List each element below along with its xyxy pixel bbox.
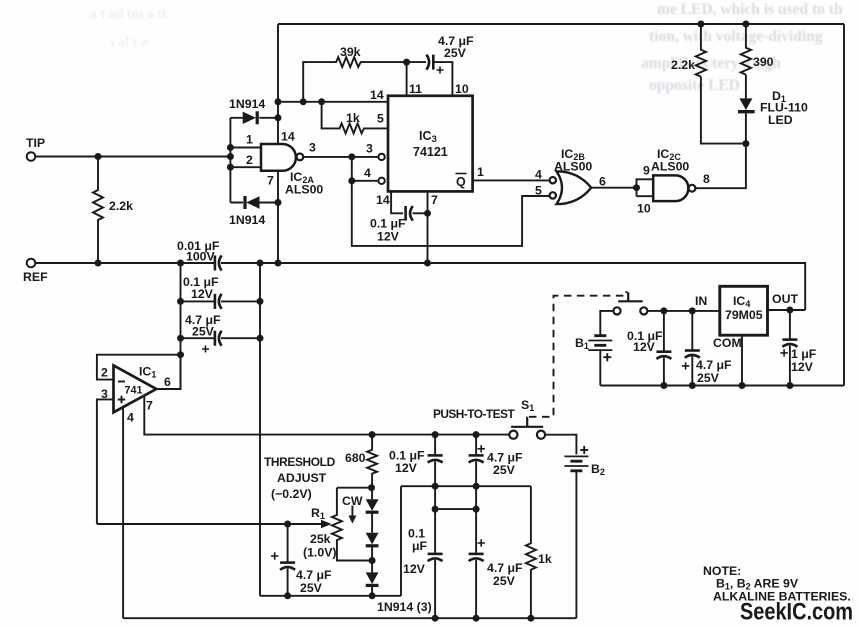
IC3 74121 box xyxy=(388,96,473,192)
junction: pin4 tie xyxy=(348,177,355,184)
svg-text:me LED, which is used to th: me LED, which is used to th xyxy=(657,1,843,18)
label OUT xyxy=(772,292,798,306)
svg-text:0.1 μF: 0.1 μF xyxy=(370,217,406,231)
svg-text:3: 3 xyxy=(366,142,373,156)
resistor 680 xyxy=(367,435,377,488)
wire: IC2A pin2 stub xyxy=(230,166,261,168)
wire: IC2C output 8 to LED node xyxy=(696,144,746,189)
resistor 1k (discharge) xyxy=(526,486,536,618)
terminal REF xyxy=(27,259,36,268)
wire: 2.2k leg to LED node xyxy=(701,77,746,144)
label 14 (IC3 left) xyxy=(370,88,384,102)
label 0.1 (lower mid) xyxy=(408,527,425,541)
label 5 xyxy=(377,112,384,126)
watermark SeekIC.com xyxy=(740,599,853,626)
label pin 2 xyxy=(246,153,253,167)
label 9 xyxy=(643,164,650,178)
label 3 xyxy=(101,387,108,401)
svg-text:1: 1 xyxy=(477,165,484,179)
capacitor 4.7uF 25V (upper mid) xyxy=(469,435,485,487)
junction: 0.1uF left xyxy=(177,298,184,305)
label 4.7 uF (timing) xyxy=(438,34,474,48)
wire: OUT to REF corner xyxy=(768,309,806,311)
capacitor 4.7uF 25V (timing) xyxy=(407,55,453,96)
svg-text:25V: 25V xyxy=(493,463,516,477)
svg-text:LED: LED xyxy=(768,113,793,127)
wire: S1 to B2 xyxy=(545,435,576,455)
wire: IC2B output 6 xyxy=(591,187,636,189)
svg-text:TIP: TIP xyxy=(26,136,45,150)
label ADJUST xyxy=(277,471,327,485)
svg-text:5: 5 xyxy=(535,184,542,198)
svg-text:74121: 74121 xyxy=(413,145,448,159)
capacitor 4.7uF 25V (reg) xyxy=(682,311,700,386)
label 25V (lower mid) xyxy=(493,574,516,588)
junction: 4.7uF upper top xyxy=(473,431,480,438)
svg-text:7: 7 xyxy=(146,399,153,413)
resistor 1k (pin5) xyxy=(322,102,388,134)
diode string 1N914 (3) xyxy=(366,488,379,596)
svg-text:7: 7 xyxy=(267,174,274,188)
svg-text:6: 6 xyxy=(599,175,606,189)
diode 1N914 (top clamp) xyxy=(230,111,278,124)
label IC1 xyxy=(139,365,156,380)
label IN xyxy=(695,294,707,308)
junction: REF/right cap vertical xyxy=(257,260,264,267)
wire: ground rail bottom xyxy=(123,617,576,619)
svg-text:4: 4 xyxy=(364,166,371,180)
junction: pin7 vertical on REF rail xyxy=(424,260,431,267)
svg-text:4.7 μF: 4.7 μF xyxy=(487,561,523,575)
svg-text:9: 9 xyxy=(643,164,650,178)
label B2 xyxy=(591,462,605,477)
wire: pin3-pin4 jumper down to IC2B pin5 xyxy=(352,157,550,246)
label 25V (timing) xyxy=(444,46,467,60)
svg-text:7: 7 xyxy=(431,193,438,207)
nand gate IC2A xyxy=(261,144,303,171)
svg-text:25V: 25V xyxy=(300,581,323,595)
svg-text:ALS00: ALS00 xyxy=(554,160,592,174)
wire: COM pin xyxy=(741,335,743,385)
junction: pin3/pin4 tie xyxy=(348,153,355,160)
label 0.1 uF (reg) xyxy=(627,329,663,343)
svg-text:ALS00: ALS00 xyxy=(651,160,689,174)
label IC2A xyxy=(290,170,314,185)
capacitor 4.7uF 25V (input bank) xyxy=(181,331,261,353)
label 25V (input bank) xyxy=(192,325,215,339)
junction: input node pin2 xyxy=(227,164,234,171)
label 4 (IC2B) xyxy=(535,168,542,182)
capacitor 0.1uF 12V (reg) xyxy=(656,311,671,386)
label 10 xyxy=(455,82,469,96)
svg-text:25V: 25V xyxy=(493,574,516,588)
label 12V (lower mid) xyxy=(403,562,426,576)
label 7 (IC1) xyxy=(146,399,153,413)
label 4 (IC1) xyxy=(127,411,134,425)
wire: REF rail xyxy=(35,263,805,310)
label PUSH-TO-TEST xyxy=(433,407,515,421)
svg-text:1N914 (3): 1N914 (3) xyxy=(377,600,432,614)
svg-text:25V: 25V xyxy=(697,371,720,385)
label 25V (threshold) xyxy=(300,581,323,595)
switch S1 push-to-test xyxy=(509,417,545,439)
label 79M05 xyxy=(725,308,763,322)
svg-text:S1: S1 xyxy=(521,398,534,413)
svg-text:14: 14 xyxy=(370,88,384,102)
wire: feedback to pin2 xyxy=(97,355,181,380)
junction: diode string on node line xyxy=(369,592,376,599)
nand gate IC2C xyxy=(653,175,695,201)
junction: 0.1uF at node line B xyxy=(432,483,439,490)
label 0.1 uF (upper mid) xyxy=(389,449,425,463)
label IC3 xyxy=(419,129,437,145)
junction: 39k / cap / pin11 xyxy=(403,59,410,66)
wire: node line B xyxy=(337,486,531,596)
label 680 xyxy=(345,451,366,465)
label 0.01 uF xyxy=(177,239,220,253)
svg-text:25k: 25k xyxy=(310,532,331,546)
junction: 1k branch xyxy=(318,98,325,105)
label 100V xyxy=(186,250,216,264)
svg-text:741: 741 xyxy=(125,385,143,397)
svg-text:(−0.2V): (−0.2V) xyxy=(271,487,312,501)
svg-text:2: 2 xyxy=(246,153,253,167)
op-amp IC1 741 xyxy=(114,365,157,412)
battery B2 xyxy=(564,446,588,618)
wire: tie bar between cap legs xyxy=(435,486,476,553)
svg-text:1k: 1k xyxy=(346,111,360,125)
label 1 uF xyxy=(791,347,817,361)
label 4.7 uF (reg) xyxy=(696,358,732,372)
switch S1 (battery pole) xyxy=(613,292,647,314)
label 1 (Q-bar out) xyxy=(477,165,484,179)
label 741 xyxy=(125,385,143,397)
label 12V (reg) xyxy=(633,340,656,354)
wire: IC1 pin4 down to ground rail xyxy=(122,407,124,618)
wire: IC3 pin 11 xyxy=(406,62,408,96)
svg-text:R1: R1 xyxy=(311,506,325,521)
wire: IC2A pin1 stub xyxy=(230,147,261,149)
label 39k xyxy=(340,45,361,59)
svg-text:a t ad tm a tt: a t ad tm a tt xyxy=(90,7,167,22)
svg-text:39k: 39k xyxy=(340,45,361,59)
svg-text:1N914: 1N914 xyxy=(229,213,265,227)
potentiometer R1 25k xyxy=(332,488,372,561)
label 4.7 uF (threshold) xyxy=(296,568,332,582)
capacitor 1uF 12V (reg out) xyxy=(780,310,797,386)
wire: regulator ground rail xyxy=(600,385,844,387)
junction: 4.7uF at IN xyxy=(689,307,696,314)
led D1 FLU-110 xyxy=(738,75,755,144)
note text xyxy=(703,564,851,604)
junction: 0.1uF right xyxy=(257,298,264,305)
capacitor 0.1uF 12V (IC3 bypass) xyxy=(406,206,428,221)
label IC2B xyxy=(561,147,585,162)
wire: IC1 pin3 down to wiper line xyxy=(97,399,114,524)
resistor 390 xyxy=(741,24,751,75)
junction: TIP/2.2k xyxy=(95,153,102,160)
label pin 1 xyxy=(246,133,253,147)
svg-text:12V: 12V xyxy=(395,461,418,475)
pin socket 4 (IC3) xyxy=(378,178,384,184)
label 8 xyxy=(703,172,710,186)
wire: top rail xyxy=(278,23,844,25)
wire: to pin socket 4 xyxy=(352,180,379,182)
label 1N914 (top) xyxy=(229,97,265,111)
wire: IC2C input stubs xyxy=(637,179,654,196)
label ALS00 (IC2B) xyxy=(554,160,592,174)
label 25k xyxy=(310,532,331,546)
capacitor 0.01uF 100V (on REF line) xyxy=(215,256,222,271)
label 390 xyxy=(753,55,774,69)
wire: pin14 line to IC3 xyxy=(278,101,388,103)
junction: 4.7uF right xyxy=(257,335,264,342)
svg-text:PUSH-TO-TEST: PUSH-TO-TEST xyxy=(433,407,515,421)
svg-text:1k: 1k xyxy=(538,552,552,566)
junction: REF/2.2k xyxy=(95,260,102,267)
junction: 0.1uF lower at rail xyxy=(432,615,439,622)
label 12V (input bank) xyxy=(191,287,214,301)
wire: switch to IN xyxy=(647,310,719,312)
label 4 (IC3) xyxy=(364,166,371,180)
junction: 0.1uF at reg rail xyxy=(660,382,667,389)
label pin 7 (IC2A) xyxy=(267,174,274,188)
junction: main vertical / REF rail xyxy=(275,260,282,267)
junction: 390 top rail xyxy=(742,21,749,28)
junction: 680/diode-string node xyxy=(368,484,375,491)
label (1.0V) xyxy=(303,546,337,560)
junction: COM at reg rail xyxy=(739,382,746,389)
wire: pin6 output loop xyxy=(156,355,180,389)
label 4.7 uF (upper mid) xyxy=(487,451,523,465)
label 12V (IC3 bypass) xyxy=(377,230,400,244)
label 2 xyxy=(101,366,108,380)
svg-text:79M05: 79M05 xyxy=(725,308,763,322)
svg-text:6: 6 xyxy=(164,375,171,389)
junction: LED node xyxy=(742,140,749,147)
wire: TIP to gate input node xyxy=(35,156,230,158)
label 1N914 (3) xyxy=(377,600,432,614)
svg-text:B2: B2 xyxy=(591,462,605,477)
junction: top diode to main vertical xyxy=(275,114,282,121)
svg-text:100V: 100V xyxy=(186,250,216,264)
junction: cap on node line xyxy=(284,592,291,599)
capacitor 0.1uF 12V (input bank) xyxy=(181,294,261,309)
junction: tie bar right xyxy=(473,506,480,513)
svg-text:2.2k: 2.2k xyxy=(109,199,133,213)
junction: REF/cap-bank vertical xyxy=(177,260,184,267)
junction: input node TIP xyxy=(227,153,234,160)
label 74121 xyxy=(413,145,448,159)
IC4 79M05 box xyxy=(720,286,768,335)
label R1 xyxy=(311,506,325,521)
terminal TIP xyxy=(27,152,36,161)
label 2.2k xyxy=(109,199,133,213)
svg-text:12V: 12V xyxy=(633,340,656,354)
wire: B1 to switch xyxy=(600,311,613,335)
label ALS00 (IC2C) xyxy=(651,160,689,174)
svg-text:12V: 12V xyxy=(791,360,814,374)
svg-text:8: 8 xyxy=(703,172,710,186)
label 1k (discharge) xyxy=(538,552,552,566)
wire: gate input vertical xyxy=(229,118,231,203)
label IC2C xyxy=(657,147,681,162)
label 12V (upper mid) xyxy=(395,461,418,475)
svg-text:1N914: 1N914 xyxy=(229,97,265,111)
junction: bottom diode to main vertical xyxy=(275,199,282,206)
wire: IC3 pin 7 to REF rail xyxy=(427,191,429,263)
svg-text:4: 4 xyxy=(535,168,542,182)
label 6 (IC1) xyxy=(164,375,171,389)
label 2.2k (pull) xyxy=(671,58,695,72)
label FLU-110 xyxy=(760,101,808,115)
wire: IC3 bottom pin 14 stub xyxy=(391,191,403,213)
label 1N914 (bottom) xyxy=(229,213,265,227)
svg-text:25V: 25V xyxy=(192,325,215,339)
wiper arrow of R1 xyxy=(97,520,332,528)
capacitor 4.7uF 25V (lower mid) xyxy=(469,539,485,618)
svg-text:4: 4 xyxy=(127,411,134,425)
label REF xyxy=(23,270,48,284)
junction: 680 top xyxy=(369,431,376,438)
svg-text:5: 5 xyxy=(377,112,384,126)
label 5 (IC2B) xyxy=(535,184,542,198)
arrow CW xyxy=(348,506,356,524)
capacitor 0.1uF 12V (upper mid) xyxy=(428,435,443,487)
junction: 1uF at reg rail xyxy=(786,382,793,389)
svg-text:14: 14 xyxy=(281,130,295,144)
svg-text:12V: 12V xyxy=(403,562,426,576)
dashed link S1 xyxy=(529,292,628,417)
label 14 (IC3 bottom) xyxy=(376,193,390,207)
label 0.1 uF (input bank) xyxy=(183,275,219,289)
svg-text:Q: Q xyxy=(456,175,466,189)
svg-text:2.2k: 2.2k xyxy=(671,58,695,72)
label D1 xyxy=(772,89,786,104)
svg-text:μF: μF xyxy=(412,539,428,553)
junction: 4.7uF at node line B xyxy=(473,483,480,490)
junction: OUT/1uF xyxy=(786,307,793,314)
nand gate IC2B (negative-OR) xyxy=(550,171,592,204)
resistor 2.2k (pull) xyxy=(696,24,706,77)
label 3 (IC3) xyxy=(366,142,373,156)
wire: right cap vertical to bottom node xyxy=(259,263,261,596)
svg-text:2: 2 xyxy=(101,366,108,380)
svg-text:t al t a: t al t a xyxy=(110,35,148,50)
svg-text:ADJUST: ADJUST xyxy=(277,471,327,485)
label CW xyxy=(342,494,363,508)
label 4.7 uF (input bank) xyxy=(185,313,221,327)
resistor 2.2k (input) xyxy=(93,157,103,264)
junction: feedback node xyxy=(177,351,184,358)
junction: 1k at rail xyxy=(527,615,534,622)
label 6 xyxy=(599,175,606,189)
label 7 (IC3) xyxy=(431,193,438,207)
svg-text:REF: REF xyxy=(23,270,48,284)
label S1 xyxy=(521,398,534,413)
junction: main vertical / pin14 line xyxy=(275,98,282,105)
label pin 3 (IC2A out) xyxy=(309,141,316,155)
label pin 14 (IC2A) xyxy=(281,130,295,144)
label B1 xyxy=(575,336,589,351)
svg-text:SeekIC.com: SeekIC.com xyxy=(740,599,853,626)
svg-text:11: 11 xyxy=(409,82,422,96)
svg-text:12V: 12V xyxy=(191,287,214,301)
label 1k xyxy=(346,111,360,125)
svg-text:COM: COM xyxy=(713,336,742,350)
label 25V (upper mid) xyxy=(493,463,516,477)
junction: 4.7uF left xyxy=(177,335,184,342)
junction: 0.1uF upper top xyxy=(432,431,439,438)
svg-text:1 μF: 1 μF xyxy=(791,347,817,361)
svg-text:tion, with voltage-dividing: tion, with voltage-dividing xyxy=(649,28,823,45)
junction: R1 bottom to diode string xyxy=(369,557,376,564)
label 12V (reg out) xyxy=(791,360,814,374)
junction: 0.1uF at IN xyxy=(660,307,667,314)
label COM xyxy=(713,336,742,350)
svg-text:THRESHOLD: THRESHOLD xyxy=(264,455,336,469)
svg-text:680: 680 xyxy=(345,451,366,465)
svg-text:opposite LED: opposite LED xyxy=(649,77,740,94)
junction: 4.7uF at reg rail xyxy=(689,382,696,389)
junction: 4.7uF lower at rail xyxy=(473,615,480,622)
svg-text:3: 3 xyxy=(309,141,316,155)
label 10 (IC2C) xyxy=(637,202,651,216)
junction: input node pin1 xyxy=(227,144,234,151)
wire: IC2A output to pin3 xyxy=(303,156,378,158)
wire: right side vertical xyxy=(843,24,845,386)
svg-text:ALS00: ALS00 xyxy=(285,183,323,197)
battery B1 xyxy=(588,336,612,386)
label TIP xyxy=(26,136,45,150)
junction: wiper/4.7uF xyxy=(284,521,291,528)
svg-text:12V: 12V xyxy=(377,230,400,244)
svg-text:14: 14 xyxy=(376,193,390,207)
pin socket 3 (IC3) xyxy=(378,154,384,160)
svg-text:390: 390 xyxy=(753,55,774,69)
svg-text:(1.0V): (1.0V) xyxy=(303,546,337,560)
label (-0.2V) xyxy=(271,487,312,501)
resistor 39k xyxy=(303,57,406,102)
junction: 2.2k top rail xyxy=(697,21,704,28)
diode 1N914 (bottom clamp) xyxy=(230,196,278,209)
label 0.1 uF (IC3 bypass) xyxy=(370,217,406,231)
svg-text:OUT: OUT xyxy=(772,292,798,306)
label 4.7 uF (lower mid) xyxy=(487,561,523,575)
junction: 39k branch xyxy=(300,98,307,105)
capacitor 4.7uF 25V (threshold) xyxy=(271,524,295,596)
label uF (lower mid) xyxy=(412,539,428,553)
label Q-bar xyxy=(456,174,467,190)
svg-text:10: 10 xyxy=(455,82,469,96)
capacitor 0.1uF 12V (lower mid) xyxy=(428,554,443,618)
junction: pin7/cap xyxy=(424,210,431,217)
label 11 xyxy=(409,82,422,96)
wire: IC3 Q-bar output to IC2B pin4 xyxy=(473,179,550,181)
wire: bottom node line xyxy=(260,595,401,597)
svg-text:1: 1 xyxy=(246,133,253,147)
svg-text:B1: B1 xyxy=(575,336,589,351)
junction: IC2C input tie xyxy=(633,184,640,191)
label THRESHOLD xyxy=(264,455,336,469)
label LED xyxy=(768,113,793,127)
svg-text:4.7 μF: 4.7 μF xyxy=(696,358,732,372)
label 25V (reg) xyxy=(697,371,720,385)
label IC4 xyxy=(733,294,750,309)
svg-text:IC1: IC1 xyxy=(139,365,156,380)
svg-text:4.7 μF: 4.7 μF xyxy=(296,568,332,582)
label ALS00 (IC2A) xyxy=(285,183,323,197)
